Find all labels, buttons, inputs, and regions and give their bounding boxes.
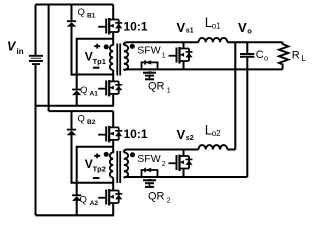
svg-text:V: V [177,127,186,142]
wire clamp column cell 2 lower [72,135,77,183]
battery Vin [29,56,43,64]
transistor QA1 [98,80,122,97]
resistor RL [279,42,288,69]
diode D3 [67,130,76,136]
svg-text:1: 1 [162,52,166,59]
svg-text:SFW: SFW [137,45,160,57]
wire Vo to Vs2 column [234,42,236,149]
transistor QB2 [98,126,122,142]
wire SFW2 source lead [183,169,185,178]
wire QB2 source lead [112,140,114,153]
capacitor Co upper lead [246,42,248,53]
svg-text:2: 2 [167,197,171,204]
wire top input rail [36,4,114,6]
transformer T2 secondary dot [130,152,135,157]
transformer T2 core [117,151,120,183]
inductor Lo1 [199,38,228,42]
wire secondary return rail cell 2 [124,176,248,179]
svg-text:10:1: 10:1 [124,19,148,33]
wire Vs1 output rail [124,42,283,45]
transistor QA2 [98,189,122,206]
wire QA1 source lead [112,94,114,106]
transformer T2 primary dot [104,152,109,157]
svg-text:A1: A1 [90,91,99,98]
transformer T2 secondary winding [124,153,128,178]
wire QB2 drain lead [112,111,114,127]
svg-text:V: V [177,20,186,35]
svg-text:Q: Q [80,85,87,96]
wire diode D2 upper lead [76,75,78,89]
transformer T1 secondary winding [124,45,128,70]
svg-text:B2: B2 [87,119,96,126]
svg-text:o: o [264,53,268,62]
svg-text:o: o [247,27,252,36]
wire primary2 bottom to box [112,178,114,183]
svg-text:2: 2 [162,161,166,168]
svg-text:Tp2: Tp2 [93,165,106,174]
wire clamp column cell 1 upper [71,5,73,21]
capacitor Co lower lead / return link column [246,58,248,177]
wire bottom input rail [36,214,114,216]
transformer T1 primary winding [110,45,113,70]
diode D4 [72,195,81,201]
svg-text:B1: B1 [87,13,96,20]
wire diode D2 lower lead [76,95,78,106]
wire QA2 source lead [112,203,114,215]
transformer T1 core [117,44,120,76]
diode D1 [67,21,76,27]
label + VTp2 [94,153,100,158]
svg-text:V: V [238,20,247,35]
transistor SFW1 [169,47,193,64]
label + VTp1 [94,44,100,49]
transistor QR2 [142,168,158,187]
transformer T1 primary dot [104,44,109,49]
wire battery upper lead [35,5,37,56]
transformer T2 primary winding [110,153,113,178]
wire clamp column cell 1 lower [72,27,77,75]
wire battery lower lead / input minus column [35,65,37,215]
svg-text:C: C [256,49,264,61]
label - VTp2 [93,177,100,179]
svg-text:R: R [292,50,300,62]
svg-text:QR: QR [148,81,165,93]
transistor QB1 [98,18,122,35]
transistor QR1 [142,60,158,79]
diode D2 [72,90,81,96]
transformer T1 secondary dot [130,44,135,49]
wire input plus column to cell 2 [48,5,50,112]
svg-text:SFW: SFW [137,153,160,165]
node VTp2 box [77,147,114,183]
wire QB1 source lead [112,32,114,45]
svg-text:A2: A2 [90,200,99,207]
wire QA2 drain lead [112,183,114,191]
svg-text:o1: o1 [212,22,221,31]
svg-text:Q: Q [80,194,87,205]
svg-text:Q: Q [78,113,85,124]
wire clamp column cell 2 upper [71,111,73,129]
wire QB1 drain lead [112,5,114,20]
wire SFW1 drain lead [183,42,185,48]
svg-text:Q: Q [78,7,85,18]
node VTp1 box [77,39,114,75]
inductor Lo2 [199,145,228,149]
svg-text:s1: s1 [186,28,194,35]
wire diode D4 lower lead [76,201,78,216]
wire primary bottom to box [112,70,114,75]
capacitor Co [240,54,254,57]
svg-text:10:1: 10:1 [124,127,148,141]
label - VTp1 [93,67,100,69]
wire secondary return rail cell 1 [124,68,283,71]
transistor SFW2 [169,155,193,172]
svg-text:in: in [17,47,24,56]
svg-text:1: 1 [167,88,171,95]
svg-text:Tp1: Tp1 [93,57,106,66]
svg-text:QR: QR [148,191,165,203]
wire mid rail A (cell1 return) [36,105,114,107]
svg-text:o2: o2 [212,129,221,138]
wire SFW1 source lead [183,61,185,69]
wire diode D4 upper lead [76,183,78,195]
wire mid rail B (cell2 input plus) [49,110,114,112]
wire SFW2 drain lead [183,150,185,157]
wire Vs2 output rail [124,150,236,153]
wire QA1 drain lead [112,75,114,82]
svg-text:L: L [302,54,307,63]
svg-text:s2: s2 [186,135,194,142]
